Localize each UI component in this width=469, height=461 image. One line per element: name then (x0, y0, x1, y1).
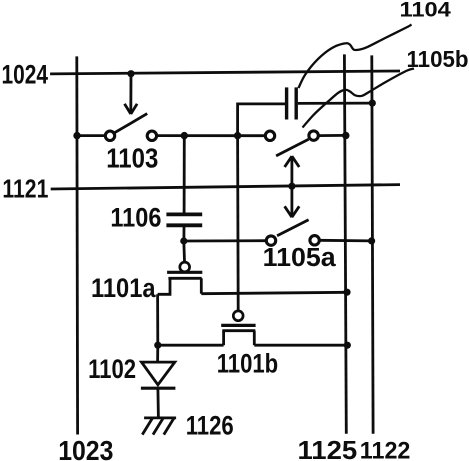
svg-text:1121: 1121 (2, 174, 48, 204)
label 1125 (298, 435, 358, 461)
label 1101a (91, 273, 156, 303)
node on bus 1125 at transistor 1101b drain (344, 342, 351, 349)
svg-text:1102: 1102 (88, 354, 136, 384)
label 1122 (360, 438, 411, 461)
node on bus 1023 at switch row (73, 132, 80, 139)
node below capacitor 1106 (180, 237, 187, 244)
wire from node at switch row up to capacitor 1104 left plate (238, 104, 285, 135)
label 1105b (407, 46, 469, 72)
svg-text:1125: 1125 (298, 435, 358, 461)
label 1102 (88, 354, 136, 384)
node on bus 1122 at capacitor 1104 (369, 100, 376, 107)
wire bus 1121 (middle horizontal) (51, 185, 400, 189)
wire from capacitor 1106 node to switch 1105a (184, 239, 267, 242)
svg-text:1122: 1122 (360, 438, 411, 461)
switch 1105a (266, 220, 319, 246)
node at capacitor 1104 branch (234, 132, 241, 139)
ganged-switch coupling double arrow (285, 156, 300, 217)
svg-text:1105b: 1105b (407, 46, 469, 72)
node on bus 1125 at transistor 1101a drain (343, 289, 350, 296)
switch 1105b (265, 131, 318, 156)
capacitor 1106 (166, 136, 202, 242)
label 1106 (110, 202, 161, 232)
capacitor 1104 (287, 87, 297, 119)
wire from transistor 1101b drain to bus 1125 (254, 344, 347, 347)
transistor 1101a (158, 241, 203, 294)
wire bus 1024 (top horizontal) (50, 71, 400, 74)
control arrow for switch 1103 (125, 74, 138, 114)
switch 1103 (105, 114, 156, 141)
label 1101b (217, 348, 278, 378)
svg-text:1023: 1023 (58, 435, 113, 461)
wire from switch 1103 to switch 1105b (157, 134, 266, 137)
wire from bus 1023 to switch 1103 (77, 134, 106, 137)
node on bus 1024 at arrow (127, 70, 134, 77)
svg-text:1024: 1024 (2, 59, 49, 89)
svg-text:1104: 1104 (400, 0, 451, 22)
wire from switch 1105b to bus 1125 (318, 134, 346, 137)
node on bus 1122 at switch 1105a (368, 237, 375, 244)
wire from switch 1105a to bus 1122 (319, 239, 372, 242)
ground 1126 (142, 418, 176, 435)
node on bus 1121 at coupling arrow (288, 183, 295, 190)
node at diode 1102 anode (154, 342, 161, 349)
wire bus 1023 (left vertical) (75, 56, 79, 434)
label 1023 (58, 435, 113, 461)
svg-text:1103: 1103 (106, 142, 158, 173)
label 1121 (2, 174, 48, 204)
wire bus 1125 (right vertical) (344, 54, 346, 433)
label 1104 (400, 0, 451, 22)
svg-text:1126: 1126 (186, 411, 234, 441)
leader line to label 1105b (303, 69, 415, 128)
wire bus 1122 (rightmost vertical) (372, 55, 373, 433)
label 1024 (2, 59, 49, 89)
node on bus 1125 at switch row (342, 132, 349, 139)
wire from transistor 1101a drain to bus 1125 (201, 292, 347, 293)
node at capacitor 1106 top branch (181, 132, 188, 139)
label 1103 (106, 142, 158, 173)
diode 1102 (141, 345, 176, 418)
wire from transistor 1101a source down to diode node (156, 294, 159, 345)
svg-text:1101a: 1101a (91, 273, 156, 303)
leader line to label 1104 (299, 25, 412, 89)
svg-text:1105a: 1105a (263, 244, 337, 272)
transistor 1101b (221, 136, 255, 346)
label 1126 (186, 411, 234, 441)
svg-text:1101b: 1101b (217, 348, 278, 378)
label 1105a (263, 244, 337, 272)
wire from diode node to transistor 1101b source (158, 344, 224, 347)
wire from capacitor 1104 right plate to bus 1122 (298, 102, 373, 105)
svg-text:1106: 1106 (110, 202, 161, 232)
